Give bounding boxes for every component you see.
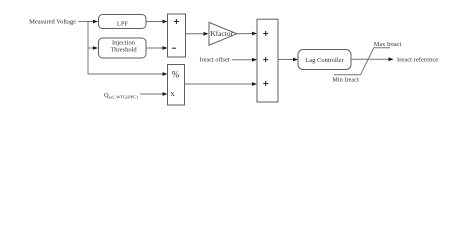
svg-text:Min Ireact: Min Ireact [332,77,359,84]
leader: underline below Max Ireact [374,47,391,49]
summer S1 [168,14,186,57]
block: LPF [99,15,147,29]
svg-text:Ireact offset: Ireact offset [199,56,229,63]
wire: summer S2 to Lag Controller [278,59,294,61]
wire: vertical branch from Measured Voltage line [87,22,89,75]
wire: branch to Injection Threshold [88,47,94,49]
block: Lag Controller [298,50,351,70]
wire: Lag Controller output to Ireact reference [351,58,389,60]
wire: Kfactor to summer S2 top input [237,33,253,35]
wire: multiplier to summer S2 bottom input [185,83,253,85]
svg-text:Threshold: Threshold [110,47,137,54]
wire: LPF to summer S1 plus input [146,21,163,23]
gain block: Kfactor [209,22,237,45]
block: Injection Threshold [99,38,147,58]
svg-text:Lag Controller: Lag Controller [305,57,344,64]
wire: Measured Voltage to LPF [79,21,95,23]
svg-text:Ireact reference: Ireact reference [397,57,438,64]
wire: branch elbow to multiplier percent input [88,73,163,75]
wire: Ireact offset to summer S2 middle input [232,59,253,61]
wire: summer S1 to Kfactor gain [186,33,205,35]
leader: overline above Min Ireact [334,74,361,76]
svg-text:%: % [172,69,180,79]
svg-text:Measured Voltage: Measured Voltage [29,18,76,25]
leader: diagonal limit line [361,48,374,75]
wire: Qref to multiplier x input [140,93,163,95]
wire: Injection Threshold to summer S1 minus input [146,47,163,49]
svg-text:Kfactor: Kfactor [210,29,233,38]
summer S2 [257,19,278,102]
svg-text:Max Ireact: Max Ireact [374,41,402,48]
svg-text:LPF: LPF [117,21,129,28]
multiplier block: percent over x [168,65,185,106]
